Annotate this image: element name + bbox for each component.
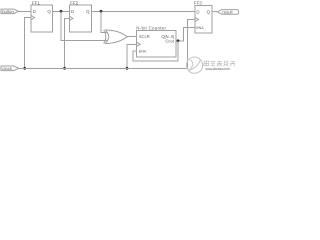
wire Cout to FF3 ENA bbox=[176, 27, 195, 41]
wire FF1 clock bbox=[25, 18, 31, 69]
svg-text:Q: Q bbox=[86, 9, 90, 14]
flip-flop FF3 bbox=[195, 6, 212, 34]
node junction counter clock on rail bbox=[126, 67, 129, 70]
svg-text:FF1: FF1 bbox=[32, 0, 40, 5]
node junction FF2 Q bbox=[100, 10, 103, 13]
wire FF2 clock bbox=[65, 18, 70, 68]
wire junction down to XOR upper input bbox=[101, 11, 108, 32]
svg-text:www.elecfans.com: www.elecfans.com bbox=[205, 67, 230, 71]
svg-text:clock: clock bbox=[2, 66, 12, 71]
counter U1 N-bit Counter bbox=[137, 31, 177, 57]
wire XOR output to counter SCLR bbox=[127, 36, 136, 38]
svg-text:ENA: ENA bbox=[139, 49, 147, 53]
wire Cout feedback to counter ENA bbox=[133, 41, 178, 61]
watermark logo circle bbox=[186, 57, 202, 73]
node junction FF1 clock on rail bbox=[23, 67, 26, 70]
output pin result bbox=[217, 10, 238, 15]
node junction FF1 Q bbox=[60, 10, 63, 13]
svg-text:ENA: ENA bbox=[196, 26, 204, 30]
svg-text:D: D bbox=[71, 9, 74, 14]
flip-flop FF2 bbox=[69, 5, 91, 32]
svg-text:Q: Q bbox=[207, 9, 211, 14]
wire button to FF1 D bbox=[19, 10, 32, 12]
svg-text:FF2: FF2 bbox=[70, 0, 78, 5]
flip-flop FF1 bbox=[31, 5, 53, 32]
wire FF3 Q to result bbox=[212, 10, 217, 12]
svg-text:N-bit Counter: N-bit Counter bbox=[136, 25, 166, 30]
wire FF2 Q to FF3 D bbox=[91, 10, 195, 12]
svg-text:button: button bbox=[2, 9, 14, 14]
svg-text:Q: Q bbox=[47, 9, 51, 14]
watermark text dianzi fashaoyou bbox=[204, 61, 236, 67]
wire FF1 Q to FF2 D bbox=[53, 10, 70, 12]
svg-text:D: D bbox=[33, 9, 36, 14]
node junction Cout bbox=[177, 39, 180, 42]
wire junction down to XOR lower input bbox=[61, 11, 108, 40]
input pin button bbox=[1, 9, 19, 14]
node junction FF2 clock on rail bbox=[63, 67, 66, 70]
gate XOR bbox=[104, 30, 128, 43]
svg-text:D: D bbox=[196, 9, 199, 14]
svg-text:SCLR: SCLR bbox=[139, 34, 150, 39]
wire counter clock bbox=[127, 44, 137, 68]
svg-text:FF3: FF3 bbox=[194, 0, 202, 5]
svg-text:result: result bbox=[222, 10, 233, 15]
svg-text:Cout: Cout bbox=[165, 39, 175, 44]
wire clock rail to FF3 clock bbox=[19, 20, 195, 69]
input pin clock bbox=[1, 66, 19, 71]
